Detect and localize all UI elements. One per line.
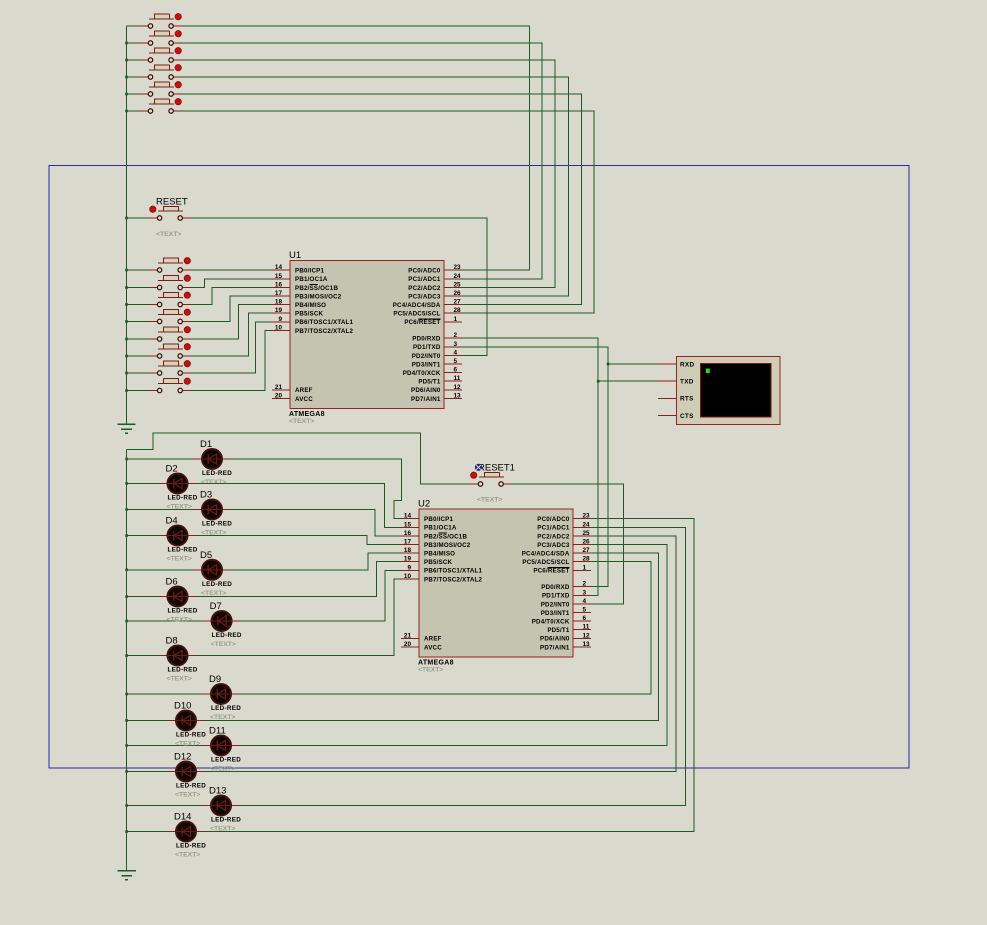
U1 pin numbers (275, 264, 461, 399)
text placeholder (RESET1) (477, 497, 502, 504)
svg-text:RESET1: RESET1 (478, 463, 515, 474)
svg-text:RESET: RESET (156, 197, 188, 208)
junction on LED bus (D7) (125, 620, 128, 623)
wire: bus to button at y=339 (127, 338, 150, 340)
wire: bus to LED D12 (127, 771, 168, 773)
text placeholder (RESET) (156, 231, 181, 238)
label D11 (209, 726, 226, 737)
svg-text:PD7/AIN1: PD7/AIN1 (411, 396, 441, 403)
wire: U1 PD0/RXD to U2 PD1/TXD (462, 338, 598, 595)
wire: bus to button at y=304.5 (127, 304, 150, 306)
svg-text:LED-RED: LED-RED (176, 732, 206, 739)
svg-text:AVCC: AVCC (424, 644, 442, 651)
svg-text:D13: D13 (209, 786, 226, 797)
wire: bus to LED D2 (127, 483, 159, 485)
svg-text:18: 18 (404, 547, 412, 554)
label D6 (166, 577, 178, 588)
wire: U2 PC0 to LED D14 (205, 519, 695, 832)
svg-text:4: 4 (454, 349, 458, 356)
svg-text:17: 17 (275, 290, 283, 297)
svg-text:LED-RED: LED-RED (176, 843, 206, 850)
value label LED-RED (D3) (202, 521, 232, 528)
svg-text:14: 14 (404, 513, 412, 520)
svg-text:PB1/OC1A: PB1/OC1A (424, 525, 457, 532)
wire: bus to keypad button at y=111 (127, 110, 141, 112)
junction on ground bus y=390.5 (125, 389, 128, 392)
svg-text:<TEXT>: <TEXT> (201, 479, 226, 486)
junction on ground bus y=270 (125, 269, 128, 272)
wire: branch to terminal TXD (598, 380, 658, 382)
terminal pin labels (680, 361, 694, 420)
svg-text:U2: U2 (418, 499, 430, 510)
junction on ground bus y=339 (125, 338, 128, 341)
wire: bus to button at y=287.5 (127, 287, 150, 289)
pushbutton (keypad top 6) (140, 99, 182, 114)
wire: keypad top 1 to U1 PC0/ADC0 (182, 26, 530, 270)
junction on LED bus (D4) (125, 534, 128, 537)
svg-text:AREF: AREF (424, 636, 442, 643)
wire: RESET button to U1 PD2/INT0 (191, 218, 487, 355)
LED D12 (LED-RED) (168, 762, 205, 782)
label D3 (200, 490, 212, 501)
svg-text:15: 15 (275, 273, 283, 280)
svg-text:6: 6 (454, 367, 458, 374)
wire: bus to LED D11 (127, 745, 203, 747)
wire: U2 PC5 to LED D9 (240, 562, 652, 694)
svg-text:28: 28 (583, 556, 591, 563)
label D9 (209, 674, 221, 685)
wire: keypad top 3 to U1 PC2/ADC2 (182, 60, 555, 287)
LED D3 (LED-RED) (194, 500, 231, 520)
LED D11 (LED-RED) (203, 736, 240, 756)
value label ATMEGA8 (U1) (289, 411, 325, 418)
junction on ground bus y=60 (125, 59, 128, 62)
label D5 (200, 550, 212, 561)
svg-text:LED-RED: LED-RED (211, 705, 241, 712)
text placeholder (D3) (201, 530, 226, 537)
junction on LED bus (D14) (125, 830, 128, 833)
junction on ground bus y=218 (125, 217, 128, 220)
LED D10 (LED-RED) (168, 711, 205, 731)
wire: ground bus (top section) (126, 26, 128, 424)
svg-text:24: 24 (454, 273, 462, 280)
value label LED-RED (D6) (168, 608, 198, 615)
svg-text:PC1/ADC1: PC1/ADC1 (408, 276, 441, 283)
svg-text:<TEXT>: <TEXT> (175, 852, 200, 859)
text placeholder (D5) (201, 590, 226, 597)
pushbutton (U1 keypad 2) (149, 275, 191, 290)
microcontroller U1 ATMEGA8 (290, 261, 444, 409)
wire: U1 PD1/TXD to U2 PD0/RXD (462, 347, 608, 587)
wire: D4 to U2 PB3 (196, 536, 401, 545)
svg-text:PB0/ICP1: PB0/ICP1 (424, 516, 453, 523)
svg-text:1: 1 (583, 564, 587, 571)
junction (TXD net at terminal RXD) (607, 363, 610, 366)
svg-text:PB6/TOSC1/XTAL1: PB6/TOSC1/XTAL1 (424, 568, 482, 575)
value label LED-RED (D12) (176, 783, 206, 790)
junction on ground bus y=373 (125, 372, 128, 375)
svg-text:27: 27 (454, 299, 462, 306)
no-model marker (blue cross) at RESET1 (475, 464, 482, 471)
svg-text:11: 11 (583, 624, 590, 631)
text placeholder (D1) (201, 479, 226, 486)
wire: button 4 to U1 PB3 (191, 296, 272, 322)
svg-text:LED-RED: LED-RED (168, 495, 198, 502)
svg-text:<TEXT>: <TEXT> (175, 741, 200, 748)
svg-text:5: 5 (454, 358, 458, 365)
svg-text:10: 10 (275, 324, 283, 331)
wire: button 8 to U1 PB7 (191, 330, 272, 390)
svg-text:D1: D1 (200, 439, 212, 450)
svg-text:RTS: RTS (680, 396, 694, 403)
junction on LED bus (D8) (125, 654, 128, 657)
svg-text:PC4/ADC4/SDA: PC4/ADC4/SDA (522, 551, 570, 558)
svg-text:D4: D4 (166, 516, 178, 527)
svg-text:CTS: CTS (680, 413, 694, 420)
text placeholder (D12) (175, 792, 200, 799)
text placeholder (D6) (167, 617, 192, 624)
junction on ground bus y=304.5 (125, 303, 128, 306)
svg-text:LED-RED: LED-RED (168, 667, 198, 674)
svg-text:PC5/ADC5/SCL: PC5/ADC5/SCL (522, 559, 569, 566)
text placeholder (U2) (418, 667, 443, 674)
svg-text:12: 12 (583, 632, 591, 639)
wire: branch to terminal RXD (608, 363, 658, 365)
LED D13 (LED-RED) (203, 796, 240, 816)
svg-text:U1: U1 (289, 250, 301, 261)
label D14 (174, 812, 191, 823)
svg-text:D7: D7 (210, 601, 222, 612)
junction on LED bus (D3) (125, 508, 128, 511)
wire: bus to LED D9 (127, 693, 203, 695)
text placeholder (D7) (211, 641, 236, 648)
svg-text:LED-RED: LED-RED (202, 521, 232, 528)
label U2 (418, 499, 430, 510)
svg-text:9: 9 (407, 564, 411, 571)
svg-text:<TEXT>: <TEXT> (156, 231, 181, 238)
wire: D6 to U2 PB5 (196, 562, 401, 597)
svg-text:26: 26 (454, 290, 462, 297)
pushbutton (U1 keypad 6) (149, 344, 191, 359)
svg-text:<TEXT>: <TEXT> (167, 676, 192, 683)
text placeholder (D9) (210, 714, 235, 721)
label U1 (289, 250, 301, 261)
svg-text:D10: D10 (174, 701, 191, 712)
pushbutton (keypad top 2) (140, 31, 182, 46)
wire: button 2 to U1 PB1 (191, 279, 272, 288)
svg-text:16: 16 (275, 281, 283, 288)
svg-text:PD2/INT0: PD2/INT0 (412, 353, 441, 360)
svg-text:2: 2 (454, 332, 458, 339)
svg-text:<TEXT>: <TEXT> (167, 617, 192, 624)
wire: bus to button at y=321.5 (127, 321, 150, 323)
pushbutton RESET (149, 206, 191, 220)
svg-text:LED-RED: LED-RED (176, 783, 206, 790)
U2 pin stubs (401, 519, 591, 647)
LED D9 (LED-RED) (203, 684, 240, 704)
value label LED-RED (D7) (212, 632, 242, 639)
svg-text:11: 11 (454, 375, 461, 382)
svg-text:PB0/ICP1: PB0/ICP1 (295, 268, 324, 275)
svg-text:PC1/ADC1: PC1/ADC1 (537, 525, 570, 532)
svg-text:PB4/MISO: PB4/MISO (295, 302, 326, 309)
value label LED-RED (D11) (211, 757, 241, 764)
wire: keypad top 5 to U1 PC4/ADC4 (182, 94, 582, 305)
wire: bus to keypad button at y=43 (127, 42, 141, 44)
wire: keypad top 2 to U1 PC1/ADC1 (182, 43, 542, 279)
junction on ground bus y=77 (125, 76, 128, 79)
wire: RESET1 to U2 PD2/INT0 (512, 484, 624, 604)
pushbutton (U1 keypad 5) (149, 327, 191, 342)
junction on LED bus (D5) (125, 569, 128, 572)
svg-text:PD6/AIN0: PD6/AIN0 (411, 387, 441, 394)
svg-text:<TEXT>: <TEXT> (167, 556, 192, 563)
svg-text:4: 4 (583, 598, 587, 605)
svg-text:D8: D8 (166, 636, 178, 647)
svg-text:PC6/RESET: PC6/RESET (404, 319, 440, 326)
svg-text:PC6/RESET: PC6/RESET (533, 568, 569, 575)
junction on ground bus y=94 (125, 93, 128, 96)
pushbutton (U1 keypad 4) (149, 309, 191, 324)
junction on LED bus (D1) (125, 458, 128, 461)
svg-text:PC5/ADC5/SCL: PC5/ADC5/SCL (393, 311, 440, 318)
wire: bus to LED D8 (127, 655, 159, 657)
wire: button 3 to U1 PB2 (191, 287, 272, 304)
junction on LED bus (D10) (125, 719, 128, 722)
svg-text:<TEXT>: <TEXT> (167, 504, 192, 511)
text placeholder (D4) (167, 556, 192, 563)
junction on LED bus (D2) (125, 482, 128, 485)
svg-text:25: 25 (583, 530, 591, 537)
svg-text:<TEXT>: <TEXT> (211, 641, 236, 648)
svg-text:PC0/ADC0: PC0/ADC0 (537, 516, 570, 523)
svg-text:PC0/ADC0: PC0/ADC0 (408, 268, 441, 275)
wire: bus to keypad button at y=94 (127, 93, 141, 95)
wire: bus to LED D1 (127, 458, 194, 460)
text placeholder (D2) (167, 504, 192, 511)
wire: button 1 to U1 PB0/ICP1 (191, 269, 272, 271)
svg-text:AREF: AREF (295, 387, 313, 394)
value label LED-RED (D14) (176, 843, 206, 850)
U2 pin numbers (404, 513, 590, 648)
pushbutton (U1 keypad 3) (149, 292, 191, 307)
wire: ground bus (LED section) (126, 450, 128, 871)
svg-text:ATMEGA8: ATMEGA8 (418, 660, 454, 667)
wire: bus to button at y=356 (127, 355, 150, 357)
svg-text:PD5/T1: PD5/T1 (418, 379, 441, 386)
svg-text:D9: D9 (209, 674, 221, 685)
LED D7 (LED-RED) (203, 611, 240, 631)
svg-text:<TEXT>: <TEXT> (210, 714, 235, 721)
wire: keypad top 6 to U1 PC5/ADC5 (182, 111, 594, 313)
svg-text:PB7/TOSC2/XTAL2: PB7/TOSC2/XTAL2 (295, 328, 353, 335)
svg-text:<TEXT>: <TEXT> (418, 667, 443, 674)
wire: bus to button at y=390.5 (127, 390, 150, 392)
pushbutton (U1 keypad 7) (149, 361, 191, 376)
junction (RXD net at terminal TXD) (597, 380, 600, 383)
wire: bus to LED D6 (127, 596, 159, 598)
svg-text:23: 23 (583, 513, 591, 520)
svg-text:LED-RED: LED-RED (202, 581, 232, 588)
svg-text:PD1/TXD: PD1/TXD (542, 593, 570, 600)
pushbutton (keypad top 3) (140, 48, 182, 63)
wire: bus to LED D13 (127, 805, 203, 807)
svg-text:PB2/SS/OC1B: PB2/SS/OC1B (295, 285, 338, 292)
terminal pin stubs (658, 364, 677, 416)
wire: bus to LED D4 (127, 535, 159, 537)
svg-text:PD1/TXD: PD1/TXD (413, 344, 441, 351)
svg-text:PD0/RXD: PD0/RXD (541, 584, 570, 591)
svg-text:PD7/AIN1: PD7/AIN1 (540, 644, 570, 651)
label D12 (174, 752, 191, 763)
svg-text:PC3/ADC3: PC3/ADC3 (537, 542, 570, 549)
svg-text:26: 26 (583, 539, 591, 546)
svg-text:TXD: TXD (680, 379, 694, 386)
junction on ground bus y=356 (125, 355, 128, 358)
svg-text:3: 3 (454, 341, 458, 348)
value label LED-RED (D2) (168, 495, 198, 502)
junction on ground bus y=43 (125, 42, 128, 45)
value label ATMEGA8 (U2) (418, 660, 454, 667)
svg-text:D2: D2 (166, 464, 178, 475)
junction on ground bus y=321.5 (125, 320, 128, 323)
junction on LED bus (D12) (125, 770, 128, 773)
pushbutton (U1 keypad 1) (149, 258, 191, 273)
svg-text:LED-RED: LED-RED (211, 817, 241, 824)
svg-text:<TEXT>: <TEXT> (289, 418, 314, 425)
wire: U2 PC3 to LED D11 (240, 545, 667, 746)
svg-text:21: 21 (404, 632, 412, 639)
svg-text:PB7/TOSC2/XTAL2: PB7/TOSC2/XTAL2 (424, 576, 482, 583)
svg-text:25: 25 (454, 281, 462, 288)
LED D14 (LED-RED) (168, 822, 205, 842)
U1 pin stubs (272, 270, 462, 398)
wire: bus to keypad button at y=60 (127, 59, 141, 61)
svg-text:PC4/ADC4/SDA: PC4/ADC4/SDA (393, 302, 441, 309)
wire: LED bus to RESET1 left terminal (127, 433, 470, 484)
svg-text:PC3/ADC3: PC3/ADC3 (408, 293, 441, 300)
label RESET1 (478, 463, 515, 474)
svg-text:15: 15 (404, 521, 412, 528)
svg-text:3: 3 (583, 589, 587, 596)
wire: bus to RESET button (127, 217, 150, 219)
value label LED-RED (D13) (211, 817, 241, 824)
wire: button 5 to U1 PB4 (191, 305, 272, 339)
svg-text:23: 23 (454, 264, 462, 271)
wire: U2 PC2 to LED D12 (205, 536, 677, 772)
value label LED-RED (D9) (211, 705, 241, 712)
svg-text:LED-RED: LED-RED (202, 470, 232, 477)
svg-text:<TEXT>: <TEXT> (201, 590, 226, 597)
virtual terminal instrument (677, 357, 781, 425)
svg-text:LED-RED: LED-RED (212, 632, 242, 639)
wire: bus to LED D7 (127, 620, 204, 622)
svg-text:5: 5 (583, 607, 587, 614)
sub-sheet border (blue rectangle) (49, 165, 909, 768)
svg-text:20: 20 (275, 392, 283, 399)
junction on ground bus y=111 (125, 110, 128, 113)
text placeholder (D11) (210, 766, 235, 773)
svg-text:PD5/T1: PD5/T1 (547, 627, 570, 634)
value label LED-RED (D8) (168, 667, 198, 674)
label D2 (166, 464, 178, 475)
svg-text:21: 21 (275, 384, 283, 391)
wire: bus to keypad button at y=77 (127, 76, 141, 78)
wire: bus to LED D14 (127, 831, 168, 833)
LED D4 (LED-RED) (159, 526, 196, 546)
svg-text:27: 27 (583, 547, 591, 554)
svg-text:12: 12 (454, 384, 462, 391)
wire: D7 to U2 PB6 (240, 570, 401, 621)
label RESET (156, 197, 188, 208)
wire: bus to LED D10 (127, 720, 168, 722)
svg-text:LED-RED: LED-RED (211, 757, 241, 764)
wire: D5 to U2 PB4 (231, 553, 402, 570)
wire: bus to keypad button at y=26 (127, 25, 141, 27)
svg-text:ATMEGA8: ATMEGA8 (289, 411, 325, 418)
wire: D8 to U2 PB7 (196, 579, 401, 656)
label D7 (210, 601, 222, 612)
wire: D3 to U2 PB2 (231, 510, 402, 536)
junction on LED bus (D11) (125, 744, 128, 747)
svg-text:D3: D3 (200, 490, 212, 501)
LED D5 (LED-RED) (194, 560, 231, 580)
junction on LED bus (D13) (125, 804, 128, 807)
svg-text:13: 13 (454, 392, 462, 399)
wire: button 6 to U1 PB5 (191, 313, 272, 356)
svg-text:20: 20 (404, 641, 412, 648)
value label LED-RED (D1) (202, 470, 232, 477)
svg-text:PD3/INT1: PD3/INT1 (541, 610, 570, 617)
text placeholder (D10) (175, 741, 200, 748)
svg-text:PC2/ADC2: PC2/ADC2 (537, 533, 570, 540)
U2 pin labels (424, 516, 570, 651)
svg-text:PD6/AIN0: PD6/AIN0 (540, 636, 570, 643)
microcontroller U2 ATMEGA8 (419, 509, 573, 657)
svg-text:6: 6 (583, 615, 587, 622)
text placeholder (D14) (175, 852, 200, 859)
svg-text:PD4/T0/XCK: PD4/T0/XCK (403, 370, 441, 377)
value label LED-RED (D4) (168, 547, 198, 554)
svg-text:PB5/SCK: PB5/SCK (295, 311, 324, 318)
svg-text:PB3/MOSI/OC2: PB3/MOSI/OC2 (424, 542, 471, 549)
svg-text:LED-RED: LED-RED (168, 547, 198, 554)
svg-text:19: 19 (275, 307, 283, 314)
svg-text:PD3/INT1: PD3/INT1 (412, 361, 441, 368)
value label LED-RED (D5) (202, 581, 232, 588)
text placeholder (D13) (210, 826, 235, 833)
wire: bus to button at y=373 (127, 372, 150, 374)
ground (top bus) (117, 424, 135, 433)
text placeholder (U1) (289, 418, 314, 425)
svg-text:PB1/OC1A: PB1/OC1A (295, 276, 328, 283)
wire: U2 PC4 to LED D10 (205, 553, 659, 720)
wire: D1 to U2 PB0 (231, 459, 402, 519)
svg-text:14: 14 (275, 264, 283, 271)
junction on LED bus (D9) (125, 693, 128, 696)
svg-text:PB5/SCK: PB5/SCK (424, 559, 453, 566)
LED D2 (LED-RED) (159, 474, 196, 494)
text placeholder (D8) (167, 676, 192, 683)
svg-text:19: 19 (404, 556, 412, 563)
wire: bus to button at y=270 (127, 269, 150, 271)
LED D6 (LED-RED) (159, 587, 196, 607)
pushbutton (keypad top 5) (140, 82, 182, 97)
wire: button 7 to U1 PB6 (191, 322, 272, 373)
svg-text:PB4/MISO: PB4/MISO (424, 551, 455, 558)
svg-text:16: 16 (404, 530, 412, 537)
svg-text:LED-RED: LED-RED (168, 608, 198, 615)
